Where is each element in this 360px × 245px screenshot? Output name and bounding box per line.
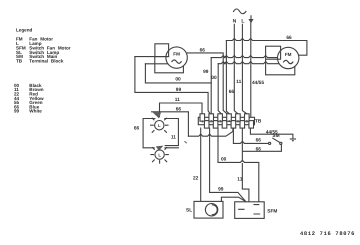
- label 11 (between N and L): [236, 79, 241, 85]
- svg-text:4812 716 78076: 4812 716 78076: [300, 231, 355, 237]
- ground symbol at SM: [290, 138, 295, 140]
- lamp box loop: [143, 119, 178, 148]
- wire 99 from TB t2 to SFM: [210, 128, 246, 202]
- AC tilde symbol above N and L: [234, 9, 246, 14]
- lamp L2: [151, 148, 168, 164]
- svg-text:11: 11: [237, 176, 242, 182]
- label 11 (SFM wire): [237, 176, 242, 182]
- label 00 (left): [175, 77, 181, 83]
- wire SL to SFM common: [221, 197, 246, 202]
- svg-text:44/55: 44/55: [252, 80, 264, 86]
- svg-text:4: 4: [228, 119, 230, 123]
- label 11 (lamp box right): [171, 135, 176, 141]
- svg-text:00: 00: [211, 75, 217, 81]
- label 99 (bottom): [218, 187, 224, 193]
- TB bottom stub 4: [231, 121, 236, 129]
- svg-text:99: 99: [203, 69, 209, 75]
- label 66 (near bus): [229, 89, 235, 95]
- TB bottom stub 3: [222, 121, 227, 129]
- switch fan motor SFM box: [235, 202, 265, 219]
- wire 11 from lamps to TB t1: [160, 103, 203, 117]
- TB top stub 3: [218, 114, 223, 121]
- node L label: [241, 18, 244, 24]
- SL knob circle: [205, 204, 217, 216]
- capacitor rect of left fan motor FM: [155, 44, 169, 57]
- wire y1: TB t2 to right motor circle: [211, 56, 277, 58]
- label 66 (lamp top): [176, 107, 182, 113]
- label 22: [193, 176, 199, 182]
- wire 99 from motor down and right to TB: [135, 57, 210, 114]
- label 66 (lamp box left): [134, 126, 140, 132]
- label 99 (left): [176, 87, 182, 93]
- svg-text:6: 6: [246, 119, 248, 123]
- svg-text:66: 66: [256, 137, 262, 143]
- node N label: [233, 18, 237, 24]
- svg-text:11: 11: [171, 135, 176, 141]
- svg-text:Legend: Legend: [16, 28, 33, 33]
- label 00 (bottom): [221, 157, 227, 163]
- wire 44/55 earth from TB t6 to ground: [250, 128, 293, 139]
- svg-text:SL: SL: [186, 207, 192, 213]
- wire y2: TB t3 to right motor circle: [218, 62, 279, 64]
- svg-text:66: 66: [176, 107, 182, 113]
- fan motor FM left circle: [166, 47, 187, 68]
- wire 66 lamp-return to TB t4 bottom: [188, 128, 233, 136]
- label 66 (left motor wire): [200, 47, 206, 53]
- lamp L2 tent connector: [156, 146, 164, 151]
- wire earth vertical: [250, 23, 252, 118]
- svg-text:00: 00: [221, 157, 227, 163]
- wire 66 from lamps to below TB: [152, 112, 189, 136]
- TB top stub 4: [227, 114, 232, 121]
- svg-text:11: 11: [175, 97, 180, 103]
- svg-text:44/55: 44/55: [266, 130, 278, 136]
- svg-text:99: 99: [176, 87, 182, 93]
- label 44/55 (earth wire upper): [252, 80, 264, 86]
- left motor bottom winding loop: [155, 57, 184, 73]
- wire 00 from motor down and right: [145, 64, 211, 83]
- bus vertical down to TB t4: [226, 41, 229, 114]
- label 11 (lamp top): [175, 97, 180, 103]
- legend heading: [14, 28, 71, 114]
- switch SM arm: [273, 138, 280, 142]
- wire 66 TB t5 to switch SM contact B and down to SFM: [242, 128, 281, 202]
- scan speck artifact: [185, 142, 186, 143]
- right motor bottom winding loop: [266, 59, 295, 75]
- svg-text:66: 66: [229, 89, 235, 95]
- switch SM contact B: [280, 142, 282, 144]
- wire 00 from TB t3 to SFM: [218, 128, 259, 202]
- label TB: [255, 118, 262, 124]
- svg-text:66: 66: [134, 126, 140, 132]
- svg-text:1: 1: [201, 119, 203, 123]
- svg-text:66: 66: [256, 147, 262, 153]
- lamp L1: [151, 118, 168, 132]
- label 66 (SM upper): [256, 137, 262, 143]
- svg-text:66: 66: [286, 35, 292, 41]
- wire 66 from left FM to TB: [187, 53, 227, 114]
- wire into motor circle (00 branch upper): [145, 63, 167, 65]
- switch lamp SL box: [194, 201, 223, 218]
- label 44/55 (lower): [266, 130, 278, 136]
- label SFM: [267, 208, 277, 214]
- wire 22 from TB t1 to SL: [200, 128, 202, 201]
- svg-text:22: 22: [193, 176, 199, 182]
- svg-text:99: 99: [14, 109, 20, 114]
- TB bottom stub 5: [240, 121, 245, 129]
- capacitor rect of right fan motor FM: [266, 46, 281, 59]
- TB top stub 6: [245, 114, 250, 121]
- label 66 (SM lower): [256, 147, 262, 153]
- TB terminal numbers: [201, 119, 248, 123]
- svg-text:TB: TB: [255, 118, 262, 124]
- svg-text:FM: FM: [173, 52, 180, 57]
- earth symbol (top supply): [248, 16, 253, 23]
- svg-text:Terminal Block: Terminal Block: [29, 58, 64, 63]
- TB bottom stub 6: [249, 121, 254, 129]
- svg-text:3: 3: [219, 119, 221, 123]
- TB bottom stub 1: [204, 121, 209, 129]
- svg-text:SFM: SFM: [267, 208, 277, 214]
- TB bottom stub 2: [213, 121, 218, 129]
- wire N vertical: [234, 24, 238, 114]
- terminal block TB body: [198, 117, 254, 124]
- svg-text:5: 5: [237, 119, 239, 123]
- svg-text:99: 99: [218, 187, 224, 193]
- vertical of wire y2 down to TB t3: [218, 64, 221, 114]
- vertical of wire y1 down to TB t2: [210, 58, 212, 114]
- SFM contact dashes: [239, 205, 260, 214]
- label 66 (right motor): [286, 35, 292, 41]
- svg-text:66: 66: [200, 47, 206, 53]
- TB top stub 5: [236, 114, 241, 121]
- switch SM contact A: [269, 142, 271, 144]
- fan motor FM right circle: [278, 47, 299, 68]
- svg-text:N: N: [233, 18, 237, 24]
- label 99 (upper mid): [203, 69, 209, 75]
- wire 66 TB t4 to switch SM contact A: [233, 128, 268, 143]
- wire into motor rect (99 branch upper): [135, 56, 169, 58]
- label SL: [186, 207, 192, 213]
- TB top stub 2: [209, 114, 214, 121]
- bus wire 66 to right motor: [226, 38, 307, 55]
- svg-text:00: 00: [175, 77, 181, 83]
- svg-text:TB: TB: [16, 58, 23, 63]
- label SM: [272, 133, 279, 139]
- wire L vertical: [242, 24, 246, 114]
- TB top stub 1: [200, 114, 205, 121]
- label 00 (upper mid): [211, 75, 217, 81]
- svg-text:2: 2: [210, 119, 212, 123]
- svg-text:FM: FM: [285, 52, 292, 57]
- lamp L1 tent connector: [152, 112, 161, 119]
- svg-text:L: L: [241, 18, 244, 24]
- svg-text:White: White: [29, 109, 42, 114]
- svg-text:11: 11: [236, 79, 241, 85]
